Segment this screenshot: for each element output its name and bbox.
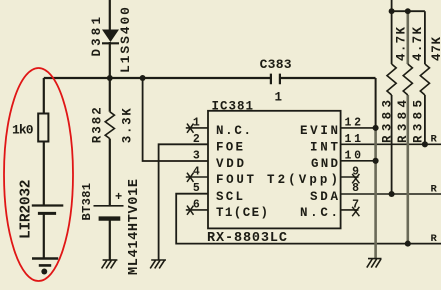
- svg-text:C383: C383: [260, 57, 292, 72]
- svg-text:1: 1: [275, 91, 283, 105]
- svg-text:3.3K: 3.3K: [121, 108, 135, 143]
- svg-text:BT381: BT381: [80, 183, 94, 221]
- svg-text:1: 1: [193, 116, 200, 129]
- svg-text:L1SS400: L1SS400: [118, 7, 133, 73]
- svg-text:4.7K: 4.7K: [394, 27, 408, 61]
- svg-text:8: 8: [352, 182, 359, 195]
- svg-text:GND: GND: [311, 157, 338, 171]
- svg-text:+: +: [115, 190, 122, 204]
- svg-text:T2(Vpp): T2(Vpp): [267, 173, 338, 187]
- svg-text:4: 4: [193, 166, 200, 179]
- svg-text:ML414HTV01E: ML414HTV01E: [127, 179, 142, 275]
- svg-text:R382: R382: [90, 107, 104, 143]
- svg-text:INT: INT: [310, 141, 338, 155]
- svg-text:SDA: SDA: [310, 190, 338, 204]
- svg-text:7: 7: [352, 198, 359, 211]
- svg-text:FOE: FOE: [216, 141, 243, 155]
- svg-text:1k0: 1k0: [12, 123, 34, 138]
- svg-text:LIR2032: LIR2032: [18, 180, 34, 240]
- svg-text:RX-8803LC: RX-8803LC: [207, 231, 287, 246]
- svg-text:3: 3: [193, 149, 200, 162]
- svg-text:SCL: SCL: [216, 190, 243, 204]
- svg-text:IC381: IC381: [212, 100, 254, 114]
- svg-text:4.7K: 4.7K: [411, 27, 425, 61]
- svg-text:6: 6: [193, 198, 200, 211]
- svg-text:5: 5: [193, 182, 200, 195]
- svg-text:VDD: VDD: [216, 157, 244, 171]
- svg-text:47K: 47K: [430, 37, 441, 61]
- svg-text:N.C.: N.C.: [216, 124, 251, 138]
- svg-text:9: 9: [352, 166, 359, 179]
- svg-text:2: 2: [193, 133, 200, 146]
